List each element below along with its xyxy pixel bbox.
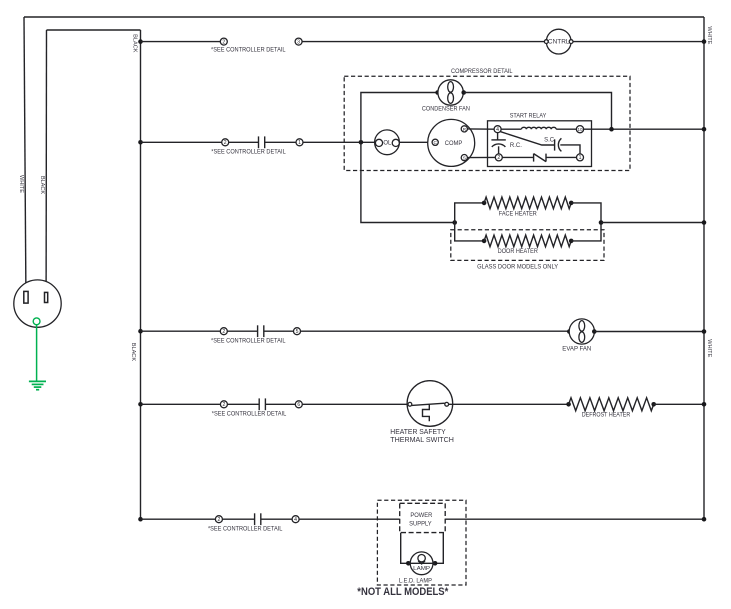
svg-text:5: 5 — [296, 329, 299, 335]
wire: right white bus — [703, 17, 705, 519]
terminal 2 (rung4) — [220, 401, 227, 408]
svg-text:R: R — [463, 127, 467, 133]
node: condenser fan left — [435, 90, 440, 95]
wire: S terminal to relay 2 — [467, 156, 495, 158]
svg-text:DEFROST HEATER: DEFROST HEATER — [582, 413, 631, 419]
start capacitor S.C. — [555, 138, 562, 151]
svg-text:LAMP: LAMP — [413, 566, 430, 572]
wire: rung3 left segment — [141, 330, 221, 332]
wire: S.C. to relay 1 — [560, 145, 580, 154]
svg-text:*SEE CONTROLLER DETAIL: *SEE CONTROLLER DETAIL — [211, 338, 286, 344]
relay terminal 10 — [576, 126, 583, 133]
wire: rung5 left segment — [141, 518, 216, 520]
contact bars (rung4) — [259, 398, 265, 410]
wire: power supply to white bus — [445, 518, 704, 520]
node: rung2 branch junction — [359, 140, 364, 145]
run capacitor R.C. — [491, 133, 505, 155]
node: lamp right — [433, 561, 438, 566]
svg-text:2: 2 — [217, 517, 220, 523]
node: evap fan right — [592, 329, 597, 334]
terminal 3 (rung1) — [295, 38, 302, 45]
wire: condenser fan to relay output node — [464, 93, 612, 130]
thermal switch blade — [412, 403, 445, 405]
wire: inner top black run — [47, 29, 141, 31]
svg-text:L.E.D. LAMP: L.E.D. LAMP — [399, 578, 432, 585]
wire: lamp right drop — [436, 533, 443, 564]
wire: relay 2 to N element — [502, 156, 533, 158]
wire: rung2 left segment — [141, 141, 222, 143]
svg-text:*SEE CONTROLLER DETAIL: *SEE CONTROLLER DETAIL — [212, 411, 287, 417]
wire: R terminal to relay 4 — [467, 128, 494, 130]
node: defrost heater right — [651, 402, 656, 407]
svg-text:10: 10 — [577, 127, 583, 132]
plug P1 body — [14, 280, 61, 327]
relay coil — [521, 127, 556, 129]
motor: condenser fan — [438, 80, 463, 105]
svg-text:BLACK: BLACK — [130, 343, 136, 362]
wire: contact to terminal 4 — [261, 518, 293, 520]
ground symbol — [29, 381, 46, 389]
wire: heater right node to white bus — [601, 222, 704, 224]
wire: evap fan to white bus — [594, 331, 704, 333]
node: heater left — [452, 220, 457, 225]
node: door heater right — [569, 239, 574, 244]
svg-text:2: 2 — [497, 155, 500, 161]
compressor detail dashed box — [344, 76, 630, 170]
wire: rung4 to thermal switch — [302, 403, 408, 405]
svg-text:*SEE CONTROLLER DETAIL: *SEE CONTROLLER DETAIL — [211, 47, 286, 53]
node: rung5 left junction — [138, 517, 143, 522]
wire: door heater to right node — [571, 223, 601, 241]
terminal 1 (rung2) — [296, 139, 303, 146]
wire: coil to relay 10 — [556, 128, 576, 130]
relay terminal 1 — [577, 154, 584, 161]
svg-text:OL: OL — [383, 141, 392, 147]
svg-text:WHITE: WHITE — [706, 339, 712, 357]
svg-text:CONDENSER FAN: CONDENSER FAN — [422, 105, 470, 112]
svg-text:4: 4 — [294, 517, 297, 523]
node: heater bus junction — [702, 220, 707, 225]
node: rung5 right junction — [702, 517, 707, 522]
wire: N element to relay 1 — [546, 156, 577, 158]
svg-text:COMPRESSOR DETAIL: COMPRESSOR DETAIL — [451, 68, 513, 75]
node: rung4 left junction — [138, 402, 143, 407]
svg-text:FACE HEATER: FACE HEATER — [499, 212, 538, 218]
wire: rung1 left segment — [141, 41, 221, 43]
wire: defrost heater to white bus — [654, 403, 704, 405]
wire: left white lead from plug — [24, 17, 26, 291]
wire: rung1 to control — [302, 41, 545, 43]
wire: top border (white conductor) — [24, 16, 704, 18]
contact bars (rung2) — [259, 136, 265, 148]
svg-text:GLASS DOOR MODELS ONLY: GLASS DOOR MODELS ONLY — [477, 265, 558, 271]
plug ground pin — [33, 318, 40, 325]
svg-text:POWER: POWER — [410, 512, 432, 519]
svg-text:C: C — [433, 140, 437, 146]
svg-text:WHITE: WHITE — [706, 26, 712, 44]
node: face heater left — [482, 201, 487, 206]
node: face heater right — [569, 201, 574, 206]
svg-text:S.C.: S.C. — [544, 137, 556, 143]
node: defrost heater left — [566, 402, 571, 407]
wire: left black bus — [140, 30, 142, 519]
wire: green ground lead — [36, 325, 38, 381]
wire: rung2 into compressor box — [303, 141, 375, 143]
wire: thermal switch to defrost heater — [449, 403, 568, 405]
resistor: FACE HEATER — [484, 197, 571, 209]
node: rung1 right junction — [702, 39, 707, 44]
wire: contact to terminal 5 — [264, 330, 294, 332]
wire: branch down from rung2 to heater row — [361, 142, 454, 222]
wire: door heater branch left — [455, 223, 483, 241]
node: condenser fan right — [461, 90, 466, 95]
resistor: DEFROST HEATER — [569, 398, 654, 411]
wire: face heater to right node — [571, 203, 601, 223]
wire: relay 4 to coil — [501, 128, 522, 130]
svg-text:WHITE: WHITE — [18, 175, 24, 193]
svg-text:2: 2 — [222, 39, 225, 45]
svg-text:BLACK: BLACK — [39, 176, 45, 195]
overload OL — [375, 130, 400, 155]
svg-text:START RELAY: START RELAY — [510, 112, 547, 119]
N element (PTC) — [534, 154, 546, 162]
thermal switch element — [423, 404, 430, 421]
node: condenser fan drop junction — [609, 127, 614, 132]
not-all-models dashed box — [377, 500, 466, 585]
svg-text:3: 3 — [297, 39, 300, 45]
node: door heater left — [482, 239, 487, 244]
svg-text:2: 2 — [222, 329, 225, 335]
contact bars (rung3) — [258, 325, 264, 337]
start relay box — [488, 121, 592, 167]
wire: rung3 to evap fan — [300, 330, 568, 332]
terminal 2 (rung5) — [215, 516, 222, 523]
terminal 4 (rung5) — [292, 516, 299, 523]
relay terminal 2 — [495, 154, 502, 161]
svg-text:*SEE CONTROLLER DETAIL: *SEE CONTROLLER DETAIL — [208, 526, 283, 532]
svg-text:DOOR HEATER: DOOR HEATER — [498, 249, 539, 255]
svg-text:4: 4 — [496, 127, 499, 133]
terminal 6 (rung4) — [295, 401, 302, 408]
node: rung4 right junction — [702, 402, 707, 407]
svg-text:SUPPLY: SUPPLY — [409, 521, 432, 528]
node: heater right — [599, 220, 604, 225]
node: rung3 left junction — [138, 329, 143, 334]
svg-text:1: 1 — [298, 140, 301, 146]
terminal 2 (rung1) — [220, 38, 227, 45]
svg-text:*SEE CONTROLLER DETAIL: *SEE CONTROLLER DETAIL — [211, 150, 286, 156]
relay terminal 4 — [494, 126, 501, 133]
power supply box — [400, 503, 446, 532]
terminal 2 (rung3) — [220, 328, 227, 335]
wire: contact to terminal 6 — [265, 403, 295, 405]
svg-text:*NOT ALL MODELS*: *NOT ALL MODELS* — [357, 586, 449, 598]
node: lamp left — [406, 561, 411, 566]
wire: relay 10 to white bus — [584, 128, 704, 130]
terminal 5 (rung3) — [294, 328, 301, 335]
wire: OL to compressor C — [399, 141, 432, 143]
svg-text:THERMAL SWITCH: THERMAL SWITCH — [390, 435, 454, 444]
svg-text:S: S — [463, 156, 466, 162]
node: evap fan left — [567, 329, 572, 334]
node: rung3 right junction — [702, 329, 707, 334]
svg-text:COMP: COMP — [445, 140, 463, 147]
node: rung2 left junction — [138, 140, 143, 145]
wire: rung4 to contact — [227, 403, 259, 405]
svg-text:BLACK: BLACK — [131, 34, 137, 53]
svg-text:6: 6 — [297, 402, 300, 408]
node: rung1 left junction — [138, 39, 143, 44]
contact bars (rung5) — [255, 513, 261, 525]
svg-text:R.C.: R.C. — [510, 143, 522, 149]
svg-text:2: 2 — [222, 402, 225, 408]
lamp LAMP — [408, 552, 435, 575]
svg-text:CNTRL: CNTRL — [548, 40, 570, 46]
wire: lamp left drop — [401, 533, 407, 564]
control CNTRL — [544, 29, 573, 54]
wire: rung1 control to white bus — [573, 41, 704, 43]
wire: rung2 to contact — [229, 141, 259, 143]
motor: EVAP FAN — [569, 319, 594, 344]
resistor: DOOR HEATER — [484, 235, 571, 247]
wire: face heater branch left — [455, 203, 483, 223]
wire: rung4 left segment — [141, 403, 221, 405]
terminal 2 (rung2) — [222, 139, 229, 146]
wire: rung5 to contact — [222, 518, 254, 520]
wire: contact to terminal 1 — [265, 141, 297, 143]
wire: branch up to condenser fan — [361, 93, 436, 143]
wire: rung3 to contact — [227, 330, 258, 332]
compressor COMP — [428, 119, 475, 166]
svg-text:1: 1 — [579, 155, 582, 161]
node: rung2 right junction — [702, 127, 707, 132]
glass door dashed box — [451, 230, 604, 261]
wire: black lead from plug up — [45, 30, 47, 292]
wire: rung5 to power supply — [299, 518, 400, 520]
thermal switch circle — [407, 381, 453, 427]
relay switch blade — [500, 132, 554, 145]
svg-text:EVAP FAN: EVAP FAN — [562, 345, 591, 352]
svg-text:2: 2 — [224, 140, 227, 146]
